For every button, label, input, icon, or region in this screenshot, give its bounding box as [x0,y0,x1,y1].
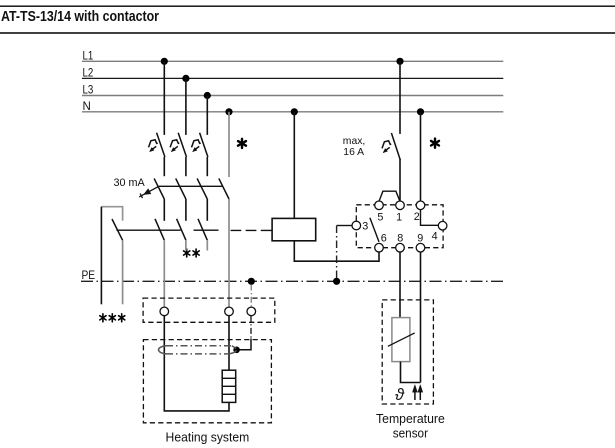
svg-text:AT-TS-13/14 with contactor: AT-TS-13/14 with contactor [1,9,159,25]
wire PE to heating terminal [250,285,252,308]
wire L2 to breaker F2 [185,78,187,134]
wire RCD3 to contactor K1 pole3 [206,199,208,221]
junction PE-thermostat [333,278,340,285]
wire PE drop into heating box [250,316,252,339]
junction L2-phase2 [182,75,189,82]
RCD pole4 contact [219,178,229,199]
junction N-thermostat [417,108,424,115]
terminal 1 [396,201,405,210]
wire F1 to RCD pole1 [163,157,165,176]
wire stub contactor pole2 [185,240,187,250]
terminal 8 [396,243,405,252]
contactor link solid segment 2 [194,229,219,231]
thermostat relay contact 3-6 [370,218,379,242]
heating terminal PE [247,307,256,316]
thermistor diagonal [388,333,415,346]
contactor K1 pole1 contact [155,219,164,240]
thermostat U1 dashed outline [356,205,443,248]
wire thermistor bottom elbow [401,362,421,383]
terminal 9 [416,243,425,252]
svg-text:sensor: sensor [393,426,429,441]
junction PE-heating [248,278,255,285]
wire F3 to RCD pole3 [206,157,208,176]
rail N [82,111,503,113]
svg-text:4: 4 [432,230,438,242]
svg-text:max,: max, [343,136,366,147]
terminal 3 [352,221,361,230]
heating element divider 2 [222,385,236,387]
heating element divider 3 [222,393,236,395]
PE sheath loop around heater wires [158,346,166,354]
asterisk note on thermostat feed [431,139,439,148]
contactor K1 pole2 contact [177,219,186,240]
breaker F4 max 16A [382,133,400,160]
svg-text:L2: L2 [83,67,94,79]
RCD trip arrow [139,186,159,198]
wire L3 to breaker F3 [206,96,208,135]
wire below manual switch [122,240,124,304]
terminal 6 [375,243,384,252]
wire N to terminal 2 [420,112,422,201]
wire N to RCD pole4 [228,112,230,177]
wire N to coil K1 [293,112,295,219]
svg-text:2: 2 [414,211,420,223]
contactor K1 pole3 contact [198,219,207,240]
title rule top [0,5,615,7]
wire L1 to breaker F4 (max 16A) [399,61,401,134]
RCD pole2 contact [176,178,186,199]
contactor link dashed to coil [231,229,273,231]
junction N-coil [291,108,298,115]
svg-text:N: N [83,101,91,113]
junction PE sheath [233,347,240,354]
wire terminal 8 to sensor [399,252,401,318]
coil K1 [272,218,316,240]
contactor link solid segment 1 [116,229,180,231]
wire terminal 9 to sensor [420,252,422,383]
label *** manual switch [100,314,125,322]
rail L2 [82,77,503,79]
heating terminal strip dashed outline [143,298,275,322]
heating terminal L [160,307,169,316]
heating element divider 1 [222,377,236,379]
terminal 5 [375,201,384,210]
terminal 4 [438,221,447,230]
svg-text:Temperature: Temperature [376,411,445,426]
manual switch S1 left wire [100,207,102,305]
svg-text:L1: L1 [83,50,94,62]
rail L3 [82,95,503,97]
breaker F1 [149,133,165,157]
RCD pole3 contact [197,178,207,199]
svg-text:6: 6 [381,232,387,244]
sensor dashed outline [382,300,433,404]
RCD mechanical link [159,185,223,187]
wire RCD1 to contactor K1 pole1 [163,199,165,221]
terminal 2 [416,201,425,210]
svg-text:ϑ: ϑ [395,386,405,404]
svg-text:9: 9 [417,232,423,244]
junction N-pole4 [225,108,232,115]
wire PE elbow to sheath junction [237,339,251,350]
junction L1-thermostat [396,58,403,65]
RCD pole1 contact [154,178,164,199]
asterisk note on N pole [238,139,246,148]
wire coil K1 to terminal 6 [294,241,379,261]
rail PE [81,280,503,282]
wire stub contactor pole3 [206,240,208,250]
svg-text:1: 1 [396,212,402,224]
wire heating terminal N to element [228,316,230,371]
heating element body [222,370,236,402]
junction L3-phase3 [204,92,211,99]
wire terminal 3 to PE [337,225,352,227]
svg-text:30 mA: 30 mA [113,177,145,189]
breaker F3 [192,133,208,157]
sensor arrows [412,385,422,400]
wire F2 to RCD pole2 [185,157,187,176]
wire L1 to breaker F1 [163,61,165,135]
junction L1-phase1 [161,58,168,65]
svg-text:8: 8 [397,232,403,244]
svg-text:Heating system: Heating system [166,430,250,445]
wire breaker F4 to terminal 1 [399,159,401,201]
manual switch S1 top bracket [101,207,122,221]
heating system dashed outline [143,340,271,423]
breaker F2 [170,133,186,157]
svg-text:L3: L3 [83,85,94,97]
manual switch S1 contact [112,219,123,240]
wire RCD pole4 to heating terminal [228,199,230,307]
svg-text:PE: PE [82,270,96,282]
heating terminal N [225,307,234,316]
jumper terminal 2 to terminal 4 [421,210,439,226]
label ** contactor [184,249,200,257]
wire RCD2 to contactor K1 pole2 [185,199,187,221]
thermistor R-theta body [392,318,410,362]
wire heating terminal L to element loop [164,316,229,411]
wire contactor pole1 to heating terminal [163,240,165,307]
svg-text:3: 3 [362,221,368,233]
svg-text:5: 5 [377,212,383,224]
rail L1 [82,60,503,62]
jumper terminal 5 to terminal 1 [379,191,400,201]
title rule bottom [0,32,615,34]
svg-text:16 A: 16 A [343,147,364,158]
